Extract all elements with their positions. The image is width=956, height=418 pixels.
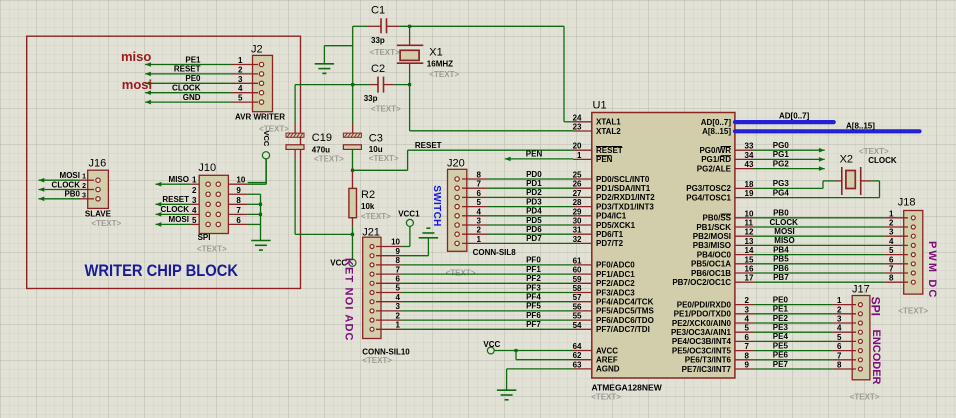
svg-text:PWM DC: PWM DC [926,241,938,299]
svg-text:XTAL2: XTAL2 [596,127,621,136]
svg-text:PB0: PB0 [64,190,80,199]
svg-text:PF4: PF4 [526,293,541,302]
svg-text:SPI: SPI [869,297,883,316]
svg-text:VCC: VCC [262,131,271,147]
svg-text:6: 6 [396,275,401,284]
svg-text:PF1: PF1 [526,265,541,274]
svg-text:RESET: RESET [174,65,201,74]
svg-text:3: 3 [192,196,197,205]
svg-text:PD0/SCL/INT0: PD0/SCL/INT0 [596,175,650,184]
svg-text:6: 6 [889,255,894,264]
svg-text:PD0: PD0 [526,170,542,179]
svg-text:<TEXT>: <TEXT> [859,147,889,156]
svg-text:8: 8 [477,171,482,180]
svg-text:<TEXT>: <TEXT> [314,155,344,164]
svg-text:56: 56 [573,302,582,311]
svg-text:PD5/XCK1: PD5/XCK1 [596,221,636,230]
svg-text:PE1/PDO/TXD0: PE1/PDO/TXD0 [674,310,732,319]
svg-text:A[8..15]: A[8..15] [846,121,875,130]
svg-text:7: 7 [236,206,241,215]
svg-text:C2: C2 [371,63,385,75]
svg-text:PG4/TOSC1: PG4/TOSC1 [686,193,731,202]
svg-text:1: 1 [837,296,842,305]
svg-text:PD4/IC1: PD4/IC1 [596,212,627,221]
svg-text:5: 5 [889,246,894,255]
svg-text:J2: J2 [251,44,263,56]
svg-text:<TEXT>: <TEXT> [446,268,476,277]
svg-text:19: 19 [745,189,754,198]
svg-text:60: 60 [573,266,582,275]
svg-text:PE0/PDI/RXD0: PE0/PDI/RXD0 [677,300,732,309]
svg-text:MOSI: MOSI [169,215,189,224]
svg-text:PB4/OC0: PB4/OC0 [697,250,732,259]
svg-text:VCC1: VCC1 [398,210,420,219]
svg-text:8: 8 [236,196,241,205]
svg-text:PD1/SDA/INT1: PD1/SDA/INT1 [596,184,651,193]
svg-text:J17: J17 [852,283,870,295]
svg-text:ATMEGA128NEW: ATMEGA128NEW [592,382,663,392]
svg-text:33p: 33p [371,36,385,45]
svg-text:PB0: PB0 [773,209,789,218]
svg-text:4: 4 [745,315,750,324]
svg-text:2: 2 [889,219,894,228]
svg-text:PB6/OC1B: PB6/OC1B [691,269,731,278]
svg-text:J21: J21 [362,226,380,238]
svg-text:9: 9 [745,361,750,370]
svg-text:PG3: PG3 [773,179,790,188]
svg-text:CLOCK: CLOCK [52,180,81,189]
svg-text:58: 58 [573,284,582,293]
svg-text:PF0/ADC0: PF0/ADC0 [596,261,635,270]
svg-text:PB5/OC1A: PB5/OC1A [691,260,731,269]
svg-text:CLOCK: CLOCK [868,156,897,165]
svg-text:57: 57 [573,293,582,302]
svg-text:PEN: PEN [596,155,613,164]
svg-text:PE3/OC3A/AIN1: PE3/OC3A/AIN1 [671,328,732,337]
svg-text:6: 6 [236,216,241,225]
svg-text:10k: 10k [361,202,375,211]
svg-text:PD6: PD6 [526,225,542,234]
svg-text:PD6/T1: PD6/T1 [596,230,624,239]
svg-text:4: 4 [837,324,842,333]
svg-text:43: 43 [745,160,754,169]
svg-text:PD7: PD7 [526,234,542,243]
svg-text:KET NOI ADC: KET NOI ADC [343,258,355,342]
svg-text:AVR WRITER: AVR WRITER [235,113,285,122]
svg-text:55: 55 [573,312,582,321]
svg-text:XTAL1: XTAL1 [596,118,621,127]
svg-text:MOSI: MOSI [774,227,794,236]
svg-text:PD1: PD1 [526,179,542,188]
svg-text:1: 1 [396,321,401,330]
svg-text:C19: C19 [312,132,332,144]
svg-text:7: 7 [477,180,482,189]
svg-text:MISO: MISO [774,236,794,245]
svg-text:5: 5 [238,94,243,103]
svg-text:PB7/OC2/OC1C: PB7/OC2/OC1C [672,278,731,287]
svg-text:34: 34 [745,151,754,160]
svg-text:<TEXT>: <TEXT> [850,393,880,402]
svg-text:PE3: PE3 [773,323,789,332]
svg-text:10: 10 [745,209,754,218]
svg-text:14: 14 [745,246,754,255]
svg-text:PD4: PD4 [526,207,542,216]
svg-text:PE2: PE2 [773,314,789,323]
svg-text:PB4: PB4 [773,245,789,254]
svg-text:AVCC: AVCC [596,346,618,355]
svg-text:J10: J10 [198,162,216,174]
svg-text:62: 62 [573,351,582,360]
svg-text:PF3: PF3 [526,283,541,292]
svg-text:CLOCK: CLOCK [172,84,201,93]
svg-text:X2: X2 [840,154,853,166]
svg-text:4: 4 [396,293,401,302]
svg-text:<TEXT>: <TEXT> [429,70,459,79]
svg-text:PF7: PF7 [526,320,541,329]
svg-text:3: 3 [396,302,401,311]
svg-text:6: 6 [477,189,482,198]
svg-text:PE1: PE1 [773,305,789,314]
svg-text:3: 3 [837,315,842,324]
svg-text:PD5: PD5 [526,216,542,225]
svg-text:8: 8 [837,361,842,370]
svg-text:R2: R2 [361,189,375,201]
svg-text:CLOCK: CLOCK [161,205,190,214]
svg-text:7: 7 [837,351,842,360]
svg-text:X1: X1 [429,47,442,59]
svg-text:SLAVE: SLAVE [85,210,112,219]
svg-text:PE4: PE4 [773,332,789,341]
svg-text:9: 9 [396,247,401,256]
svg-text:J16: J16 [89,158,107,170]
svg-text:6: 6 [745,333,750,342]
svg-text:PB2/MOSI: PB2/MOSI [693,232,731,241]
svg-text:<TEXT>: <TEXT> [197,245,227,254]
svg-text:27: 27 [573,189,582,198]
svg-text:SPI: SPI [198,233,211,242]
svg-text:PE0: PE0 [185,74,201,83]
svg-text:7: 7 [889,265,894,274]
svg-text:8: 8 [396,256,401,265]
svg-text:2: 2 [192,186,197,195]
svg-text:<TEXT>: <TEXT> [370,48,400,57]
svg-text:PG2/ALE: PG2/ALE [697,164,732,173]
svg-text:PE7: PE7 [773,360,789,369]
svg-text:31: 31 [573,226,582,235]
svg-text:C3: C3 [369,133,383,145]
svg-text:11: 11 [745,219,754,228]
svg-text:23: 23 [573,123,582,132]
svg-text:PB5: PB5 [773,255,789,264]
svg-text:WRITER CHIP BLOCK: WRITER CHIP BLOCK [85,261,239,280]
svg-text:8: 8 [745,351,750,360]
svg-text:33p: 33p [364,94,378,103]
svg-text:MOSI: MOSI [60,171,80,180]
svg-text:5: 5 [396,284,401,293]
svg-text:PD2/RXD1/INT2: PD2/RXD1/INT2 [596,193,655,202]
svg-text:PG4: PG4 [773,188,790,197]
svg-text:10: 10 [236,176,245,185]
svg-text:1: 1 [192,176,197,185]
svg-text:4: 4 [477,207,482,216]
svg-text:PF0: PF0 [526,256,541,265]
svg-text:PF1/ADC1: PF1/ADC1 [596,270,635,279]
svg-text:4: 4 [238,84,243,93]
svg-text:18: 18 [745,180,754,189]
svg-text:RESET: RESET [415,141,442,150]
svg-text:PF4/ADC4/TCK: PF4/ADC4/TCK [596,298,654,307]
svg-text:PE1: PE1 [185,55,201,64]
svg-text:24: 24 [573,113,582,122]
svg-text:PB3/MISO: PB3/MISO [693,241,731,250]
svg-text:25: 25 [573,171,582,180]
svg-text:PG0: PG0 [773,141,790,150]
svg-text:9: 9 [236,186,241,195]
svg-text:PD3: PD3 [526,197,542,206]
svg-text:7: 7 [396,265,401,274]
svg-text:J20: J20 [447,158,465,170]
svg-text:PE7/IC3/INT7: PE7/IC3/INT7 [682,365,732,374]
svg-text:2: 2 [238,65,243,74]
svg-text:63: 63 [573,360,582,369]
svg-text:28: 28 [573,198,582,207]
svg-text:3: 3 [82,192,86,199]
svg-text:U1: U1 [593,100,607,112]
svg-text:AGND: AGND [596,365,620,374]
svg-text:30: 30 [573,217,582,226]
svg-text:<TEXT>: <TEXT> [371,105,401,114]
svg-text:4: 4 [889,237,894,246]
svg-text:PG1/RD: PG1/RD [701,155,731,164]
svg-text:2: 2 [396,311,401,320]
svg-text:SWITCH: SWITCH [431,185,442,227]
svg-text:PB6: PB6 [773,264,789,273]
svg-text:16: 16 [745,265,754,274]
svg-text:PG3/TOSC2: PG3/TOSC2 [686,184,731,193]
svg-text:PD7/T2: PD7/T2 [596,239,624,248]
svg-text:CONN-SIL8: CONN-SIL8 [473,248,517,257]
svg-text:6: 6 [837,342,842,351]
svg-text:PG0/WR: PG0/WR [699,146,731,155]
svg-text:C1: C1 [371,4,385,16]
svg-text:PE5/OC3C/INT5: PE5/OC3C/INT5 [672,346,732,355]
svg-text:10: 10 [391,238,400,247]
svg-text:59: 59 [573,275,582,284]
svg-text:5: 5 [477,198,482,207]
svg-text:PE2/XCK0/AIN0: PE2/XCK0/AIN0 [672,319,732,328]
svg-text:12: 12 [745,228,754,237]
svg-text:7: 7 [745,342,750,351]
svg-text:2: 2 [837,305,842,314]
svg-text:3: 3 [889,228,894,237]
svg-text:3: 3 [745,305,750,314]
svg-text:1: 1 [577,151,582,160]
svg-text:<TEXT>: <TEXT> [362,356,392,365]
svg-text:2: 2 [477,226,482,235]
svg-text:PE5: PE5 [773,341,789,350]
svg-text:61: 61 [573,256,582,265]
svg-text:64: 64 [573,342,582,351]
svg-text:AD[0..7]: AD[0..7] [779,111,810,120]
svg-text:2: 2 [745,296,750,305]
svg-text:2: 2 [82,183,86,190]
svg-text:5: 5 [837,333,842,342]
svg-text:PEN: PEN [526,150,543,159]
svg-text:15: 15 [745,255,754,264]
svg-text:29: 29 [573,207,582,216]
svg-text:<TEXT>: <TEXT> [91,219,121,228]
svg-text:3: 3 [477,217,482,226]
svg-text:PF2/ADC2: PF2/ADC2 [596,279,635,288]
svg-text:5: 5 [192,216,197,225]
svg-text:5: 5 [745,324,750,333]
svg-text:miso: miso [121,49,151,64]
svg-text:1: 1 [238,56,243,65]
svg-text:PF2: PF2 [526,274,541,283]
svg-text:RESET: RESET [596,146,623,155]
svg-text:PE6/T3/INT6: PE6/T3/INT6 [685,356,732,365]
svg-text:PG1: PG1 [773,150,790,159]
svg-text:1: 1 [477,235,482,244]
svg-text:<TEXT>: <TEXT> [361,212,391,221]
svg-text:A[8..15]: A[8..15] [702,127,731,136]
svg-text:PB1/SCK: PB1/SCK [696,223,731,232]
svg-text:PF7/ADC7/TDI: PF7/ADC7/TDI [596,325,650,334]
svg-text:PE6: PE6 [773,351,789,360]
svg-text:1: 1 [82,174,86,181]
svg-text:PE0: PE0 [773,295,789,304]
svg-text:<TEXT>: <TEXT> [898,307,928,316]
svg-text:PF5: PF5 [526,302,541,311]
svg-text:VCC: VCC [483,340,500,349]
svg-text:mosi: mosi [122,77,152,92]
svg-text:PF3/ADC3: PF3/ADC3 [596,288,635,297]
svg-text:MISO: MISO [169,175,189,184]
svg-text:1: 1 [889,209,894,218]
svg-text:AREF: AREF [596,356,618,365]
svg-text:CLOCK: CLOCK [770,218,799,227]
svg-text:PB0/SS: PB0/SS [703,214,732,223]
svg-text:4: 4 [192,206,197,215]
svg-text:33: 33 [745,142,754,151]
svg-text:PF5/ADC5/TMS: PF5/ADC5/TMS [596,307,654,316]
svg-text:PB7: PB7 [773,273,789,282]
svg-text:ENCODER: ENCODER [870,330,882,385]
svg-text:PD3/TXD1/INT3: PD3/TXD1/INT3 [596,202,654,211]
svg-text:16MHZ: 16MHZ [427,59,453,68]
svg-text:PD2: PD2 [526,188,542,197]
svg-text:3: 3 [238,75,243,84]
svg-text:13: 13 [745,237,754,246]
svg-text:8: 8 [889,274,894,283]
svg-text:PF6: PF6 [526,311,541,320]
svg-text:32: 32 [573,235,582,244]
svg-text:17: 17 [745,274,754,283]
svg-text:PF6/ADC6/TDO: PF6/ADC6/TDO [596,316,654,325]
svg-text:J18: J18 [898,196,916,208]
svg-text:AD[0..7]: AD[0..7] [701,118,732,127]
svg-text:PG2: PG2 [773,159,790,168]
svg-text:470u: 470u [312,145,330,154]
svg-text:GND: GND [183,93,201,102]
svg-text:PE4/OC3B/INT4: PE4/OC3B/INT4 [672,337,732,346]
svg-text:RESET: RESET [162,195,189,204]
svg-text:<TEXT>: <TEXT> [591,393,621,402]
svg-text:26: 26 [573,180,582,189]
svg-text:<TEXT>: <TEXT> [369,154,399,163]
svg-text:54: 54 [573,321,582,330]
svg-text:20: 20 [573,142,582,151]
svg-text:10u: 10u [369,145,383,154]
